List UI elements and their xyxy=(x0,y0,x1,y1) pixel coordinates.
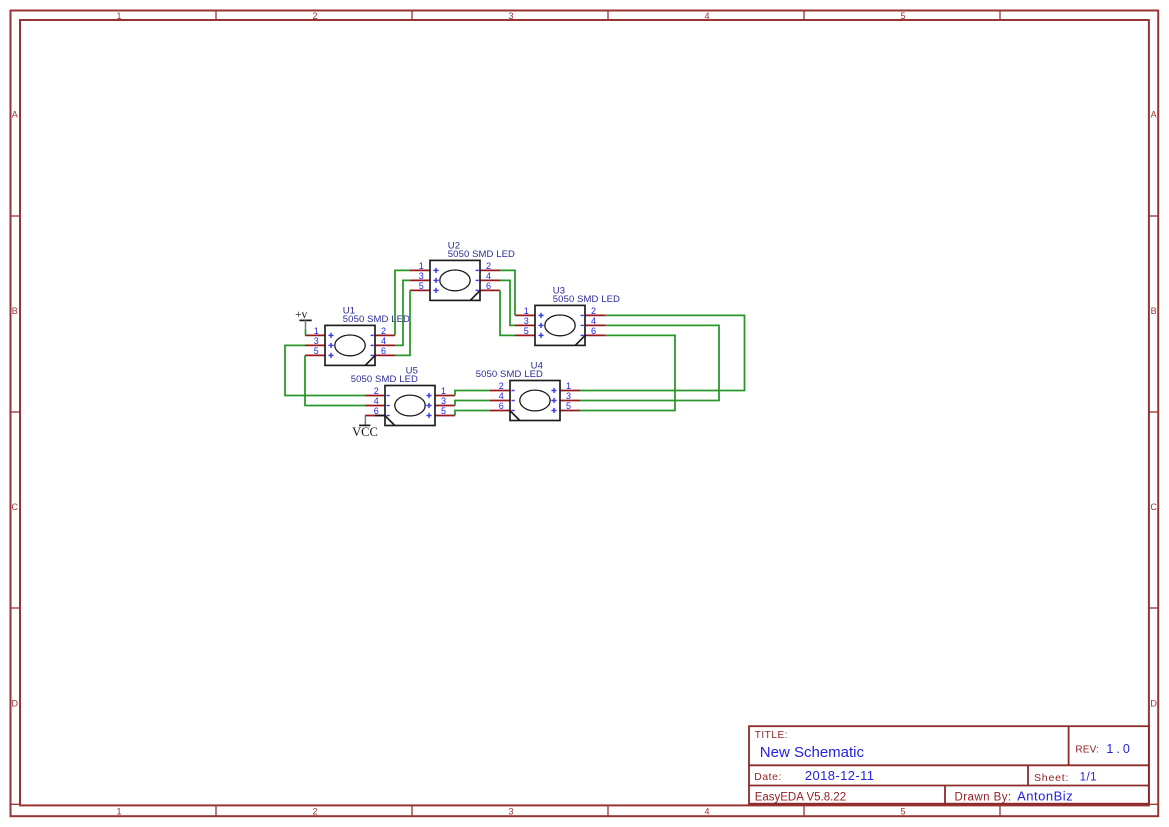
svg-text:REV:: REV: xyxy=(1075,744,1099,755)
svg-text:EasyEDA V5.8.22: EasyEDA V5.8.22 xyxy=(755,792,846,804)
LED U3 (5050 SMD LED) xyxy=(515,286,620,346)
wire U5 pin 1 to U4 pin 2 xyxy=(455,391,490,396)
U5 plus mark pin row 3 xyxy=(426,413,431,418)
svg-text:5: 5 xyxy=(900,11,905,21)
svg-text:D: D xyxy=(12,698,19,708)
U3 minus mark pin row 1 xyxy=(581,314,584,316)
U2 lens ellipse xyxy=(440,270,470,291)
svg-text:3: 3 xyxy=(314,336,319,346)
svg-text:2: 2 xyxy=(312,11,317,21)
U2 minus mark pin row 3 xyxy=(476,289,479,291)
U5 pin 1 stub xyxy=(435,395,455,397)
U1 pin 5 stub xyxy=(305,354,325,356)
frame row tick right y=804.3 xyxy=(1149,803,1159,805)
frame column tick top x=412 xyxy=(411,10,413,20)
wire U3 pin 2 to U4 pin 1 xyxy=(580,315,745,390)
U2 plus mark pin row 2 xyxy=(433,278,438,283)
U4 pin 2 stub xyxy=(490,390,510,392)
+V stem xyxy=(305,320,307,329)
U2 pin 1 stub xyxy=(410,269,430,271)
svg-text:4: 4 xyxy=(591,316,596,326)
svg-text:5050 SMD LED: 5050 SMD LED xyxy=(476,369,543,380)
U1 minus mark pin row 1 xyxy=(371,334,374,336)
frame row tick left y=608 xyxy=(10,607,20,609)
svg-text:D: D xyxy=(1150,698,1157,708)
svg-text:+v: +v xyxy=(295,309,307,321)
svg-text:2: 2 xyxy=(381,326,386,336)
svg-text:3: 3 xyxy=(566,391,571,401)
U4 minus mark pin row 3 xyxy=(512,410,515,412)
U1 pin 2 stub xyxy=(375,334,395,336)
U5 minus mark pin row 2 xyxy=(387,405,390,407)
frame column tick top x=1000 xyxy=(999,10,1001,20)
svg-text:Date:: Date: xyxy=(754,772,782,783)
svg-text:Sheet:: Sheet: xyxy=(1034,772,1069,784)
svg-text:B: B xyxy=(1151,306,1157,316)
U2 pin 5 stub xyxy=(410,289,430,291)
wire U5 pin 3 to U4 pin 4 xyxy=(455,401,490,406)
U3 pin 2 stub xyxy=(585,314,605,316)
U2 body xyxy=(430,260,480,300)
U1 plus mark pin row 3 xyxy=(328,353,333,358)
svg-text:VCC: VCC xyxy=(352,425,378,439)
wire U2 pin 4 to U3 pin 3 xyxy=(500,280,515,325)
+V crossbar xyxy=(299,319,311,321)
title block DrawnBy cell divider xyxy=(944,786,946,804)
svg-text:4: 4 xyxy=(704,807,709,817)
LED U4 (5050 SMD LED) xyxy=(476,361,580,421)
svg-text:2018-12-11: 2018-12-11 xyxy=(805,768,875,783)
U2 corner notch xyxy=(470,291,480,301)
svg-text:5: 5 xyxy=(419,281,424,291)
U4 pin 5 stub xyxy=(560,410,580,412)
svg-text:5050 SMD LED: 5050 SMD LED xyxy=(553,294,620,305)
power flag +V xyxy=(295,309,312,330)
U5 plus mark pin row 2 xyxy=(426,403,431,408)
U1 body xyxy=(325,325,375,365)
U3 pin 4 stub xyxy=(585,324,605,326)
svg-text:6: 6 xyxy=(381,346,386,356)
svg-text:B: B xyxy=(12,306,18,316)
svg-text:5: 5 xyxy=(900,807,905,817)
svg-text:4: 4 xyxy=(381,336,386,346)
VCC black stub overlay xyxy=(375,415,385,417)
svg-text:3: 3 xyxy=(508,11,513,21)
svg-text:4: 4 xyxy=(486,271,491,281)
frame column tick top x=608 xyxy=(607,10,609,20)
svg-text:6: 6 xyxy=(591,326,596,336)
U4 plus mark pin row 1 xyxy=(551,388,556,393)
svg-text:5: 5 xyxy=(524,326,529,336)
svg-text:1: 1 xyxy=(524,306,529,316)
frame column tick bottom x=608 xyxy=(607,805,609,817)
U2 plus mark pin row 3 xyxy=(433,288,438,293)
wire U1 pin 4 to U2 pin 3 xyxy=(395,280,410,345)
U2 plus mark pin row 1 xyxy=(433,268,438,273)
U5 pin 5 stub xyxy=(435,415,455,417)
svg-text:1: 1 xyxy=(116,807,121,817)
wire U5 pin 5 to U4 pin 6 xyxy=(455,411,490,416)
wire U3 pin 6 to U4 pin 5 xyxy=(580,335,675,410)
svg-text:A: A xyxy=(12,110,18,120)
U3 pin 1 stub xyxy=(515,314,535,316)
U1 pin 4 stub xyxy=(375,344,395,346)
U3 minus mark pin row 3 xyxy=(581,334,584,336)
U1 minus mark pin row 2 xyxy=(371,344,374,346)
U5 lens ellipse xyxy=(395,395,425,416)
U3 plus mark pin row 3 xyxy=(538,333,543,338)
U2 minus mark pin row 2 xyxy=(476,279,479,281)
U2 pin 3 stub xyxy=(410,279,430,281)
wire U1 pin 5 to U5 pin 4 xyxy=(305,355,365,405)
svg-text:6: 6 xyxy=(374,406,379,416)
U2 pin 2 stub xyxy=(480,269,500,271)
frame row tick right y=216 xyxy=(1149,215,1159,217)
frame column tick bottom x=804 xyxy=(803,805,805,817)
svg-text:4: 4 xyxy=(499,391,504,401)
svg-text:3: 3 xyxy=(524,316,529,326)
frame row tick right y=412 xyxy=(1149,411,1159,413)
U4 lens ellipse xyxy=(520,390,550,411)
U1 corner notch xyxy=(365,356,375,366)
svg-text:2: 2 xyxy=(486,261,491,271)
svg-text:AntonBiz: AntonBiz xyxy=(1017,789,1073,804)
net flag VCC xyxy=(352,416,385,440)
U5 pin 3 stub xyxy=(435,405,455,407)
svg-text:New Schematic: New Schematic xyxy=(760,744,865,761)
title block REV cell divider xyxy=(1068,726,1070,765)
svg-text:1/1: 1/1 xyxy=(1080,772,1098,784)
frame column tick bottom x=1000 xyxy=(999,805,1001,817)
U3 corner notch xyxy=(575,336,585,346)
svg-text:C: C xyxy=(1150,502,1157,512)
frame column tick top x=216 xyxy=(215,10,217,20)
svg-text:5: 5 xyxy=(441,406,446,416)
U4 pin 3 stub xyxy=(560,400,580,402)
svg-text:1: 1 xyxy=(441,386,446,396)
U4 minus mark pin row 2 xyxy=(512,400,515,402)
U5 pin 6 stub xyxy=(365,415,385,417)
U3 lens ellipse xyxy=(545,315,575,336)
VCC stem xyxy=(364,416,366,426)
svg-text:4: 4 xyxy=(704,11,709,21)
U4 plus mark pin row 2 xyxy=(551,398,556,403)
wire U2 pin 2 to U3 pin 1 xyxy=(500,270,515,315)
svg-text:A: A xyxy=(1151,110,1157,120)
svg-text:4: 4 xyxy=(374,396,379,406)
svg-text:1: 1 xyxy=(419,261,424,271)
U5 corner notch xyxy=(385,416,395,426)
U4 pin 6 stub xyxy=(490,410,510,412)
frame row tick right y=608 xyxy=(1149,607,1159,609)
U5 pin 2 stub xyxy=(365,395,385,397)
wire U1 pin 2 to U2 pin 1 xyxy=(395,270,410,335)
U3 body xyxy=(535,305,585,345)
svg-text:TITLE:: TITLE: xyxy=(755,730,788,741)
wire U1 pin 3 to U5 pin 2 xyxy=(285,345,365,395)
svg-text:5: 5 xyxy=(314,346,319,356)
title block outline xyxy=(749,726,1149,804)
U4 pin 4 stub xyxy=(490,400,510,402)
wire U3 pin 4 to U4 pin 3 xyxy=(580,325,719,400)
U5 body xyxy=(385,386,435,426)
title block row divider 2 xyxy=(749,785,1149,787)
svg-text:2: 2 xyxy=(499,381,504,391)
frame column tick top x=804 xyxy=(803,10,805,20)
frame row tick left y=412 xyxy=(10,411,20,413)
wire +V flag to U1 pin 1 xyxy=(305,329,307,335)
svg-text:C: C xyxy=(12,502,19,512)
U1 plus mark pin row 2 xyxy=(328,343,333,348)
U4 plus mark pin row 3 xyxy=(551,408,556,413)
svg-text:5: 5 xyxy=(566,401,571,411)
U5 pin 4 stub xyxy=(365,405,385,407)
U2 minus mark pin row 1 xyxy=(476,269,479,271)
frame row tick left y=216 xyxy=(10,215,20,217)
U3 pin 5 stub xyxy=(515,334,535,336)
U5 minus mark pin row 1 xyxy=(387,395,390,397)
svg-text:6: 6 xyxy=(499,401,504,411)
U4 pin 1 stub xyxy=(560,390,580,392)
U1 pin 3 stub xyxy=(305,344,325,346)
LED U5 (5050 SMD LED) xyxy=(351,366,455,426)
svg-text:3: 3 xyxy=(419,271,424,281)
svg-text:2: 2 xyxy=(312,807,317,817)
svg-text:5050 SMD LED: 5050 SMD LED xyxy=(448,249,515,260)
VCC crossbar xyxy=(359,424,370,426)
U1 lens ellipse xyxy=(335,335,365,356)
U4 corner notch xyxy=(510,411,520,421)
svg-text:1: 1 xyxy=(314,326,319,336)
wire U1 pin 6 to U2 pin 5 xyxy=(395,290,410,355)
frame column tick bottom x=216 xyxy=(215,805,217,817)
svg-text:3: 3 xyxy=(508,807,513,817)
U1 minus mark pin row 3 xyxy=(371,354,374,356)
title block row divider 1 xyxy=(749,764,1149,766)
U3 pin 3 stub xyxy=(515,324,535,326)
U3 pin 6 stub xyxy=(585,334,605,336)
U4 minus mark pin row 1 xyxy=(512,390,515,392)
svg-text:6: 6 xyxy=(486,281,491,291)
svg-text:1: 1 xyxy=(116,11,121,21)
U2 pin 4 stub xyxy=(480,279,500,281)
frame column tick bottom x=412 xyxy=(411,805,413,817)
U3 minus mark pin row 2 xyxy=(581,324,584,326)
svg-text:2: 2 xyxy=(374,386,379,396)
wire U2 pin 6 to U3 pin 5 xyxy=(500,290,515,335)
U3 plus mark pin row 2 xyxy=(538,323,543,328)
U5 minus mark pin row 3 xyxy=(387,415,390,417)
svg-text:3: 3 xyxy=(441,396,446,406)
U3 plus mark pin row 1 xyxy=(538,313,543,318)
U5 plus mark pin row 1 xyxy=(426,393,431,398)
LED U2 (5050 SMD LED) xyxy=(410,241,515,301)
U1 pin 1 stub xyxy=(305,334,325,336)
U1 plus mark pin row 1 xyxy=(328,333,333,338)
svg-text:1: 1 xyxy=(566,381,571,391)
svg-text:5050 SMD LED: 5050 SMD LED xyxy=(343,314,410,325)
title block Sheet cell divider xyxy=(1027,765,1029,785)
U4 body xyxy=(510,381,560,421)
U2 pin 6 stub xyxy=(480,289,500,291)
svg-text:2: 2 xyxy=(591,306,596,316)
svg-text:1.0: 1.0 xyxy=(1106,742,1132,756)
svg-text:5050 SMD LED: 5050 SMD LED xyxy=(351,374,418,385)
LED U1 (5050 SMD LED) xyxy=(305,306,410,366)
svg-text:Drawn By:: Drawn By: xyxy=(955,792,1012,804)
U1 pin 6 stub xyxy=(375,354,395,356)
frame row tick left y=804.3 xyxy=(10,803,20,805)
